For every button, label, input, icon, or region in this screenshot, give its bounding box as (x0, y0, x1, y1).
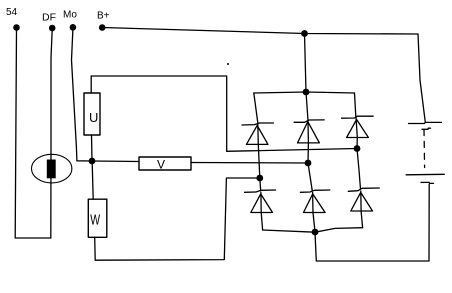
wire rectifier plus bus (254, 92, 355, 93)
terminal DF (49, 25, 56, 32)
wire plus bus stub to diode D1 (254, 93, 258, 123)
stator winding W box (88, 199, 107, 237)
wire star point to W box top (92, 163, 93, 199)
wire W phase bottom run to D1 column (95, 178, 260, 260)
wire plus bus stub to diode D2 (306, 92, 308, 121)
node rectifier plus bus junction (303, 89, 310, 96)
diode D4 (lower left) (245, 178, 276, 230)
wire V phase line to D2 column (191, 162, 308, 165)
wire B+ junction to rectifier plus bus (305, 34, 307, 93)
wire star point to V box (92, 160, 139, 163)
wire U phase top run (91, 76, 227, 151)
wire DF through field winding down to loop corner (51, 30, 52, 239)
wire B+ top line to battery branch (102, 28, 418, 35)
svg-text:B+: B+ (97, 11, 110, 22)
svg-text:U: U (89, 110, 98, 125)
diode D1 (upper left) (242, 123, 274, 178)
wire 54 down-left loop to rotor bottom (15, 29, 51, 238)
wire U box bottom to star point (91, 135, 94, 161)
diode D3 (upper right) (342, 116, 374, 148)
field winding rotor (ellipse with brush bar) (32, 154, 72, 183)
wire plus bus stub to diode D3 (355, 93, 356, 116)
svg-text:DF: DF (42, 12, 56, 24)
stator winding V box (139, 157, 191, 170)
node minus bus junction (312, 229, 319, 236)
node star point (89, 158, 96, 165)
terminal B+ (99, 24, 106, 31)
wire rectifier minus bus (263, 228, 363, 233)
wire U phase line to D3 column (227, 149, 357, 152)
wire battery positive drop (418, 34, 425, 122)
stator winding U box (84, 93, 100, 135)
node V phase junction (305, 160, 312, 167)
battery G1 (406, 122, 444, 183)
diode D6 (lower right) (348, 149, 379, 228)
diode D2 (upper middle) (294, 120, 324, 163)
wire U box top up (90, 76, 92, 93)
node W phase junction (256, 175, 263, 182)
svg-text:Mo: Mo (63, 10, 77, 21)
node U phase junction (354, 145, 361, 152)
svg-text:54: 54 (6, 7, 18, 18)
wire Mo down to star point (72, 29, 93, 161)
terminal 54 (13, 24, 20, 31)
node B+ junction (301, 30, 308, 37)
terminal Mo (70, 24, 77, 31)
stray ink speck (227, 63, 229, 65)
wire minus bus to battery negative (315, 184, 429, 261)
svg-text:V: V (157, 158, 165, 172)
svg-text:W: W (90, 212, 100, 228)
diode D5 (lower middle) (300, 163, 329, 232)
